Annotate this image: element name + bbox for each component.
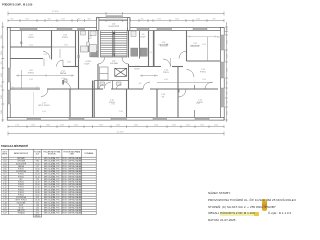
svg-text:KER. DLAŽBA, PVC: KER. DLAŽBA, PVC [44, 170, 61, 173]
svg-text:KER. DLAŽBA, PVC: KER. DLAŽBA, PVC [44, 185, 61, 188]
svg-text:OBÝV. POKOJ: OBÝV. POKOJ [38, 104, 50, 107]
window bottom wall [69, 118, 84, 121]
svg-text:POKOJ: POKOJ [109, 102, 115, 104]
outer wall top-right segment [128, 28, 225, 31]
svg-text:1500: 1500 [196, 19, 200, 21]
svg-text:ČÍSLO: ČÍSLO [3, 150, 8, 153]
window bottom wall [153, 118, 167, 121]
svg-text:ŠTUK. OMÍTKA, MALBA: ŠTUK. OMÍTKA, MALBA [62, 203, 82, 206]
partition h y66.5 corridor [63, 66, 79, 68]
svg-text:CHODBA: CHODBA [17, 159, 25, 162]
room labels [28, 24, 220, 107]
svg-text:3 300: 3 300 [119, 111, 123, 113]
svg-text:450: 450 [227, 28, 229, 31]
svg-text:KER. DLAŽBA, PVC: KER. DLAŽBA, PVC [44, 157, 61, 160]
svg-text:ŠTUK. OMÍTKA, MALBA: ŠTUK. OMÍTKA, MALBA [62, 159, 82, 162]
svg-text:1500: 1500 [227, 40, 229, 44]
stair enclosure left v [97, 31, 99, 58]
svg-text:ŠTUK. OMÍTKA, MALBA: ŠTUK. OMÍTKA, MALBA [62, 196, 82, 199]
door jamb x63 [62, 60, 64, 67]
svg-text:KER. DLAŽBA, PVC: KER. DLAŽBA, PVC [44, 196, 61, 199]
svg-text:OBÝV. POKOJ: OBÝV. POKOJ [15, 198, 27, 201]
svg-text:KER. DLAŽBA, PVC: KER. DLAŽBA, PVC [44, 198, 61, 201]
room table TABULKA MISTNOSTI [1, 145, 28, 148]
partition v x148 [148, 31, 150, 67]
svg-text:4 880: 4 880 [164, 79, 168, 81]
wc room left of elevator [100, 67, 109, 80]
svg-text:1600: 1600 [1, 110, 3, 114]
partition h y47 left [10, 46, 52, 48]
door arc wc2 [117, 85, 122, 90]
interior dim marks corridor [16, 49, 158, 77]
svg-text:ŠTUK. OMÍTKA, MALBA: ŠTUK. OMÍTKA, MALBA [62, 167, 82, 170]
svg-text:ÚKLID: ÚKLID [18, 206, 24, 209]
svg-text:POKOJ: POKOJ [200, 71, 206, 73]
door arc right room [187, 70, 195, 78]
partition v x126.5 bottom [126, 89, 128, 118]
svg-text:(m2): (m2) [36, 153, 40, 155]
svg-text:1 850: 1 850 [99, 125, 103, 127]
partition h y89 right [150, 88, 218, 90]
svg-text:BALKON: BALKON [17, 209, 25, 212]
partition h y89 long left [10, 88, 40, 90]
svg-text:6 100: 6 100 [42, 111, 46, 113]
svg-text:950: 950 [1, 62, 3, 65]
svg-text:TERASA: TERASA [17, 211, 25, 214]
outer wall top-left segment [7, 28, 97, 31]
window left wall [7, 90, 10, 104]
door arc bottom right [205, 82, 212, 89]
svg-text:1 750: 1 750 [15, 125, 19, 127]
svg-text:POKOJ: POKOJ [197, 102, 203, 104]
svg-text:ŠTUK. OMÍTKA, MALBA: ŠTUK. OMÍTKA, MALBA [62, 170, 82, 173]
window right wall [220, 88, 224, 107]
partition v x70 bottom [69, 89, 71, 118]
svg-text:1300: 1300 [227, 111, 229, 115]
svg-text:1500: 1500 [74, 125, 78, 127]
stair tower right wall [128, 18, 130, 31]
svg-text:1750: 1750 [157, 19, 161, 21]
svg-text:KOUP.: KOUP. [140, 36, 146, 38]
svg-text:1400: 1400 [1, 95, 3, 99]
svg-text:2 170: 2 170 [148, 52, 152, 54]
window top wall [137, 28, 149, 31]
svg-text:900: 900 [227, 92, 229, 95]
svg-text:2000: 2000 [1, 35, 3, 39]
svg-text:1600: 1600 [227, 68, 229, 72]
hinge blob x178.5 [178, 90, 180, 93]
svg-text:1500: 1500 [61, 19, 65, 21]
svg-text:900: 900 [11, 19, 14, 21]
svg-text:SCHODIŠTĚ: SCHODIŠTĚ [16, 162, 27, 165]
svg-text:KER. DLAŽBA, PVC: KER. DLAŽBA, PVC [44, 211, 61, 214]
svg-text:296,41: 296,41 [35, 215, 40, 217]
svg-text:CHODBA: CHODBA [110, 62, 118, 65]
window stair tower [106, 16, 123, 18]
svg-text:900: 900 [141, 19, 144, 21]
partition h y66.5 mid-right [129, 66, 162, 68]
door arc wc1 [99, 85, 104, 90]
door arc mid room [163, 59, 171, 67]
svg-text:950: 950 [227, 82, 229, 85]
svg-text:ŠTUK. OMÍTKA, MALBA: ŠTUK. OMÍTKA, MALBA [62, 185, 82, 188]
svg-text:KER. DLAŽBA, PVC: KER. DLAŽBA, PVC [44, 177, 61, 180]
window right wall [220, 35, 224, 50]
svg-text:KER. DLAŽBA, PVC: KER. DLAŽBA, PVC [44, 164, 61, 167]
window right wall [220, 62, 224, 78]
svg-text:ŠTUK. OMÍTKA, MALBA: ŠTUK. OMÍTKA, MALBA [62, 177, 82, 180]
partition h y51.5 bath [89, 51, 99, 53]
svg-text:ŠATNA: ŠATNA [18, 164, 25, 167]
partition h y89 mid [47, 88, 98, 90]
svg-text:950: 950 [227, 101, 229, 104]
svg-text:900: 900 [139, 83, 142, 85]
partition h y89 hall [94, 88, 103, 90]
svg-text:(POVRCH): (POVRCH) [48, 153, 56, 155]
svg-text:1400: 1400 [186, 125, 190, 127]
dim line above y89 wall [10, 86, 40, 88]
top detail dimension line [8, 19, 224, 22]
svg-text:KER. DLAŽBA, PVC: KER. DLAŽBA, PVC [44, 162, 61, 165]
door arc room 2.06 [43, 52, 50, 59]
svg-text:WC: WC [89, 38, 93, 40]
partition v x178 [177, 67, 179, 118]
svg-text:POKOJ: POKOJ [28, 72, 34, 74]
door arc room 2.15 up [143, 82, 150, 89]
svg-text:KOUP.: KOUP. [84, 63, 90, 65]
svg-text:1600: 1600 [46, 125, 50, 127]
door arc bottom left room [41, 90, 48, 97]
svg-text:POKOJ: POKOJ [163, 72, 169, 74]
svg-text:ŠTUK. OMÍTKA, MALBA: ŠTUK. OMÍTKA, MALBA [62, 201, 82, 204]
wc divider x112.5 [112, 81, 114, 90]
svg-text:1400: 1400 [1, 73, 3, 77]
window jamb x194.5 [194, 110, 196, 118]
room 2.11 extras [207, 37, 209, 61]
svg-text:900: 900 [88, 19, 91, 21]
svg-text:1500: 1500 [116, 125, 120, 127]
svg-text:POZNÁMKA: POZNÁMKA [84, 151, 94, 154]
svg-text:2000: 2000 [134, 125, 138, 127]
svg-text:8,60: 8,60 [36, 212, 39, 214]
partition v x88.5 bath [88, 31, 90, 52]
faint vline x33.5 big room [33, 92, 35, 115]
window top wall [193, 28, 207, 31]
svg-text:750: 750 [78, 19, 81, 21]
svg-text:KOUP.: KOUP. [134, 68, 140, 70]
svg-text:POVRCHOVÁ ÚPRAVA: POVRCHOVÁ ÚPRAVA [63, 150, 80, 153]
svg-text:ŠTUK. OMÍTKA, MALBA: ŠTUK. OMÍTKA, MALBA [62, 157, 82, 160]
svg-text:PODLAHOVÁ KRYTINA: PODLAHOVÁ KRYTINA [43, 150, 61, 153]
svg-text:ŠTUK. OMÍTKA, MALBA: ŠTUK. OMÍTKA, MALBA [62, 206, 82, 209]
partition v x157 bottom [156, 89, 158, 118]
svg-text:1500: 1500 [200, 125, 204, 127]
svg-text:KER. DLAŽBA, PVC: KER. DLAŽBA, PVC [44, 188, 61, 191]
window bottom wall [195, 118, 209, 121]
svg-text:ZÁDVEŘÍ: ZÁDVEŘÍ [17, 157, 25, 160]
svg-text:KER. DLAŽBA, PVC: KER. DLAŽBA, PVC [44, 167, 61, 170]
window bottom wall [27, 118, 41, 121]
svg-text:1200: 1200 [227, 54, 229, 58]
svg-text:KER. DLAŽBA, PVC: KER. DLAŽBA, PVC [44, 180, 61, 183]
highlight yellow on obsah line [220, 212, 258, 216]
svg-text:KER. DLAŽBA, PVC: KER. DLAŽBA, PVC [44, 193, 61, 196]
svg-text:KER. DLAŽBA, PVC: KER. DLAŽBA, PVC [44, 183, 61, 186]
partition h y89 mid2 [111, 88, 143, 90]
svg-text:2 050: 2 050 [154, 125, 158, 127]
svg-text:ŠTUK. OMÍTKA, MALBA: ŠTUK. OMÍTKA, MALBA [62, 172, 82, 175]
stair enclosure right v [128, 31, 130, 58]
svg-text:22 450: 22 450 [52, 11, 59, 13]
stair tower top wall [97, 18, 131, 20]
svg-text:KER. DLAŽBA, PVC: KER. DLAŽBA, PVC [44, 201, 61, 204]
door arc stair left [98, 58, 105, 65]
door arc corridor left [57, 60, 64, 67]
svg-text:2.22: 2.22 [3, 212, 6, 214]
svg-text:1 500: 1 500 [43, 54, 47, 56]
svg-text:ŠTUK. OMÍTKA, MALBA: ŠTUK. OMÍTKA, MALBA [62, 175, 82, 178]
door hinge x78.5 wall [78, 55, 80, 58]
svg-text:ŠTUK. OMÍTKA, MALBA: ŠTUK. OMÍTKA, MALBA [62, 162, 82, 165]
stair arrow [113, 33, 115, 56]
interior faint dim texts [29, 44, 206, 113]
bottom overall dimension line [8, 132, 224, 136]
svg-text:22 450: 22 450 [117, 132, 124, 134]
svg-text:1500: 1500 [214, 125, 218, 127]
top overall dimension line [8, 12, 224, 16]
svg-text:NÁZEV MÍSTNOSTI: NÁZEV MÍSTNOSTI [14, 151, 29, 154]
partition v x92.5 bottom double [92, 81, 94, 118]
svg-text:KER. DLAŽBA, PVC: KER. DLAŽBA, PVC [44, 175, 61, 178]
svg-text:KER. DLAŽBA, PVC: KER. DLAŽBA, PVC [44, 159, 61, 162]
door arc stair right [122, 58, 129, 65]
partition h y66.5 right seg [172, 66, 183, 68]
svg-text:ŠTUK. OMÍTKA, MALBA: ŠTUK. OMÍTKA, MALBA [62, 180, 82, 183]
door arc hall up [104, 82, 111, 89]
svg-text:1750: 1750 [25, 19, 29, 21]
vestibule jamb x44 [43, 59, 45, 67]
partition h y47 ext [52, 46, 76, 48]
highlight marker orange blob [262, 199, 267, 211]
svg-text:1 200: 1 200 [61, 78, 65, 80]
svg-text:POKOJ: POKOJ [62, 37, 68, 39]
svg-text:3 350: 3 350 [202, 79, 206, 81]
partition v x51.5 [51, 31, 53, 60]
door leaf x170.5 [170, 58, 172, 67]
svg-text:ŠTUK. OMÍTKA, MALBA: ŠTUK. OMÍTKA, MALBA [62, 211, 82, 214]
svg-text:1200: 1200 [175, 19, 179, 21]
svg-text:ŠTUK. OMÍTKA, MALBA: ŠTUK. OMÍTKA, MALBA [62, 188, 82, 191]
svg-text:KK: KK [162, 96, 165, 98]
wc fixtures below elevator [100, 82, 121, 85]
svg-text:KER. DLAŽBA, PVC: KER. DLAŽBA, PVC [44, 190, 61, 193]
svg-text:SCHODIŠTĚ: SCHODIŠTĚ [108, 25, 119, 28]
shelf line y82.5 [157, 82, 213, 84]
svg-text:KER. DLAŽBA, PVC: KER. DLAŽBA, PVC [44, 172, 61, 175]
svg-text:KER. DLAŽBA, PVC: KER. DLAŽBA, PVC [44, 206, 61, 209]
door hinge blob x21.5 [20, 42, 22, 44]
svg-text:KUCHYNĚ: KUCHYNĚ [17, 201, 26, 204]
partition v x186.5 [186, 31, 188, 62]
svg-text:900: 900 [213, 19, 216, 21]
window bottom wall [111, 118, 127, 121]
partition h y61 right [187, 60, 221, 62]
svg-text:KER. DLAŽBA, PVC: KER. DLAŽBA, PVC [44, 203, 61, 206]
svg-text:800: 800 [1, 85, 3, 88]
svg-text:3 650: 3 650 [64, 45, 68, 47]
svg-text:KOUPELNA: KOUPELNA [16, 170, 26, 173]
right dimension line [225, 22, 228, 122]
window top wall [157, 28, 172, 31]
partition h y58.5 left with door gap [10, 58, 43, 60]
window top wall [20, 28, 37, 31]
svg-text:3 900: 3 900 [29, 79, 33, 81]
svg-text:4 100: 4 100 [29, 45, 33, 47]
partition v x153.7 shaft [153, 31, 155, 67]
outer wall bottom [7, 118, 224, 121]
svg-text:ŠTUK. OMÍTKA, MALBA: ŠTUK. OMÍTKA, MALBA [62, 198, 82, 201]
partition v x75.5 [75, 31, 77, 67]
title block text [208, 192, 300, 195]
stair tower left wall [97, 18, 99, 31]
svg-text:1500: 1500 [31, 125, 35, 127]
door arc room 2.18 down [179, 90, 187, 98]
bath fixtures room 2.03 [64, 45, 97, 83]
svg-text:ŠTUK. OMÍTKA, MALBA: ŠTUK. OMÍTKA, MALBA [62, 190, 82, 193]
partition v x78.5 corridor [78, 31, 80, 90]
window left wall [7, 68, 10, 82]
svg-text:ŠTUK. OMÍTKA, MALBA: ŠTUK. OMÍTKA, MALBA [62, 193, 82, 196]
partition v x139.5 [139, 31, 141, 59]
partition left room divider v [21, 31, 23, 48]
bottom detail dimension line [8, 125, 224, 128]
svg-text:KOUPELNA: KOUPELNA [16, 196, 26, 199]
svg-text:ŠTUK. OMÍTKA, MALBA: ŠTUK. OMÍTKA, MALBA [62, 183, 82, 186]
svg-text:POKOJ: POKOJ [28, 37, 34, 39]
svg-text:1200: 1200 [60, 125, 64, 127]
svg-text:2.06: 2.06 [67, 62, 71, 64]
door leaf corridor bottom [62, 80, 64, 85]
svg-text:1150: 1150 [1, 51, 3, 55]
staircase 2.01 treads [101, 31, 128, 58]
elevator shaft with X [115, 68, 127, 76]
svg-text:4 200: 4 200 [202, 44, 206, 46]
svg-text:ŠATNA: ŠATNA [60, 72, 67, 75]
partition v x21.5 lower thin [21, 70, 23, 89]
door arc x186.5 wall [179, 51, 187, 59]
svg-text:1400: 1400 [172, 125, 176, 127]
window top wall [57, 28, 72, 31]
svg-text:KER. DLAŽBA, PVC: KER. DLAŽBA, PVC [44, 209, 61, 212]
left dimension line [1, 22, 4, 122]
svg-text:ŠTUK. OMÍTKA, MALBA: ŠTUK. OMÍTKA, MALBA [62, 209, 82, 212]
outer wall left [7, 28, 10, 121]
bathroom fixtures left of stairs [81, 31, 148, 57]
svg-text:PÛDORYS 2.NP , M 1:100: PÛDORYS 2.NP , M 1:100 [2, 1, 33, 6]
svg-text:PLOCHA: PLOCHA [34, 150, 41, 153]
outer wall right [220, 28, 224, 121]
wc strip below elevator [94, 80, 128, 82]
svg-text:900: 900 [48, 19, 51, 21]
door arc corridor bottom [63, 81, 71, 89]
svg-text:ŠTUK. OMÍTKA, MALBA: ŠTUK. OMÍTKA, MALBA [62, 164, 82, 167]
wall stub x194.5 top [194, 85, 196, 89]
window top wall [78, 28, 85, 31]
